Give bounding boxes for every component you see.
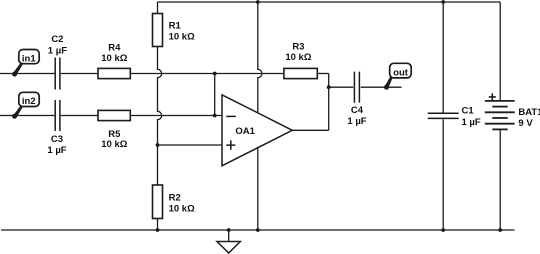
capacitor C2 (55, 58, 60, 90)
svg-text:C4: C4 (351, 105, 364, 116)
wire in2 input (0, 115, 54, 117)
resistor R3 (284, 68, 317, 78)
wire bottom ground rail (1, 229, 515, 231)
op-amp plus input mark (226, 140, 235, 150)
svg-text:1 µF: 1 µF (47, 145, 66, 156)
wire C1 top column (442, 2, 444, 113)
wire battery bottom column (499, 129, 501, 230)
svg-text:C1: C1 (462, 106, 475, 117)
junction C1 rail bottom (441, 228, 445, 232)
wire C1 bottom column (442, 119, 444, 230)
junction summing bottom (213, 114, 217, 118)
wire R4 to R3 (summing net) (130, 73, 284, 75)
wire C3 to R5 (61, 115, 98, 117)
svg-text:in2: in2 (22, 96, 36, 107)
svg-text:R2: R2 (169, 193, 181, 204)
wire C4 to out stub (361, 86, 402, 88)
svg-text:R1: R1 (169, 21, 182, 32)
svg-text:10 kΩ: 10 kΩ (169, 32, 195, 43)
node out callout (384, 63, 411, 89)
resistor R4 (98, 68, 130, 78)
svg-text:R4: R4 (108, 42, 121, 53)
op-amp minus input mark (226, 115, 236, 117)
svg-text:out: out (393, 68, 409, 79)
wire output to C4 (329, 86, 354, 88)
svg-text:BAT1: BAT1 (518, 107, 540, 118)
resistor R2 (153, 185, 163, 219)
wire R1 top stub (157, 2, 159, 14)
wire R5 to inverting input (130, 115, 222, 117)
junction output node (327, 85, 331, 89)
svg-text:10 kΩ: 10 kΩ (101, 53, 127, 64)
svg-text:in1: in1 (22, 53, 36, 64)
wire op-amp output (292, 129, 328, 131)
svg-text:1 µF: 1 µF (347, 116, 366, 127)
svg-text:10 kΩ: 10 kΩ (285, 52, 311, 63)
capacitor C3 (55, 100, 60, 131)
node in2 callout (12, 92, 39, 118)
svg-text:1 µF: 1 µF (462, 117, 481, 128)
wire R2 bottom stub (157, 219, 159, 231)
node in1 callout (12, 50, 39, 77)
wire output column (328, 74, 330, 131)
ground (217, 228, 240, 253)
junction R2-rail (156, 228, 160, 232)
battery plus mark (489, 93, 496, 100)
resistor R5 (98, 110, 130, 120)
capacitor C4 (354, 72, 359, 103)
svg-text:10 kΩ: 10 kΩ (101, 139, 127, 150)
svg-text:C3: C3 (51, 134, 63, 145)
op-amp OA1 (222, 95, 292, 166)
wire bias column with hops (158, 47, 162, 186)
wire op-amp V- pin (257, 148, 259, 230)
wire C2 to R4 (61, 73, 98, 75)
junction summing top (213, 72, 217, 76)
wire top supply rail (158, 1, 501, 3)
wire R3 to output column (317, 73, 328, 75)
junction battery rail bottom (498, 228, 502, 232)
junction C1 rail top (441, 0, 445, 4)
svg-text:9 V: 9 V (518, 118, 533, 129)
svg-text:10 kΩ: 10 kΩ (169, 204, 195, 215)
wire bias to non-inverting input (158, 144, 223, 146)
svg-text:C2: C2 (51, 34, 63, 45)
junction V- rail (256, 228, 260, 232)
battery BAT1 (485, 101, 515, 129)
junction bias node (156, 143, 160, 147)
svg-text:OA1: OA1 (235, 126, 255, 137)
wire summing join column (214, 74, 216, 116)
junction V+ rail (256, 0, 260, 4)
wire battery top column (499, 2, 501, 101)
resistor R1 (153, 14, 163, 47)
wire op-amp V+ pin with hop (258, 2, 262, 113)
wire in1 input (0, 73, 54, 75)
svg-text:1 µF: 1 µF (48, 46, 67, 57)
capacitor C1 (428, 113, 459, 118)
